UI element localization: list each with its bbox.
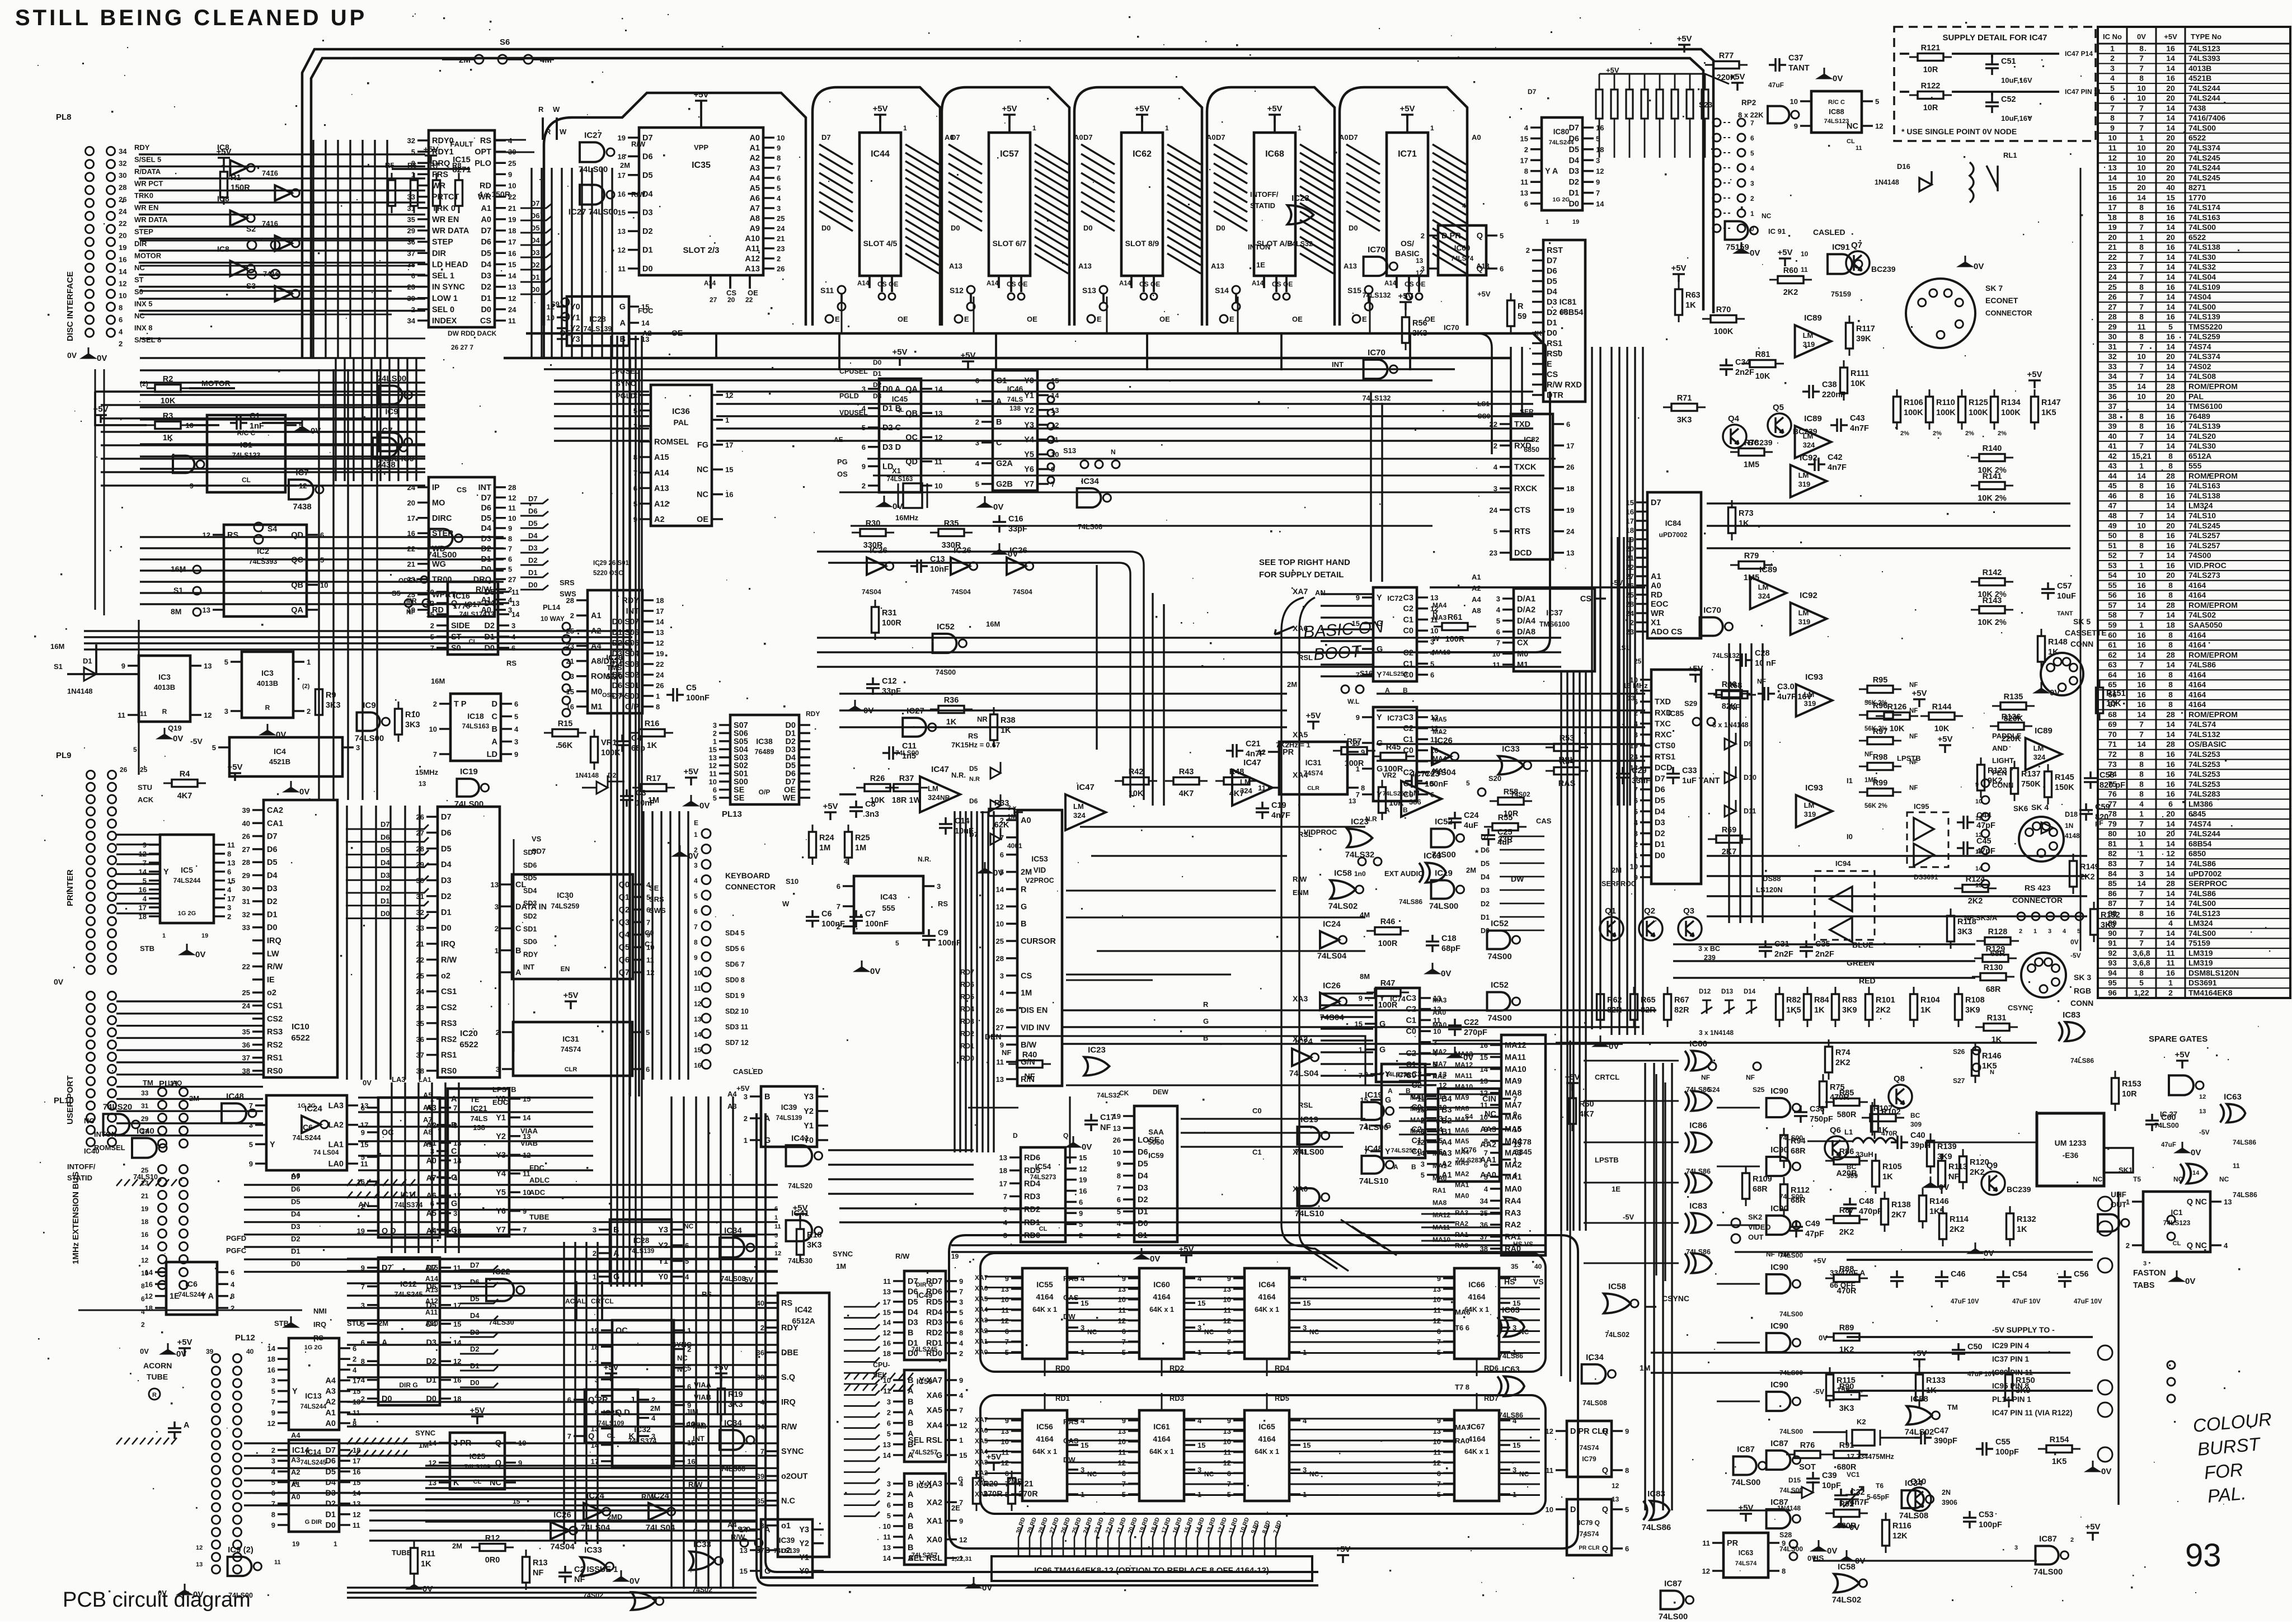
svg-text:12: 12	[267, 1419, 275, 1428]
svg-text:7: 7	[2139, 551, 2144, 560]
resistor R91	[1825, 1451, 1868, 1458]
svg-text:64K x 1: 64K x 1	[1149, 1448, 1174, 1456]
svg-text:R145: R145	[2055, 773, 2074, 782]
svg-text:3K3: 3K3	[1412, 329, 1427, 338]
svg-text:B: B	[492, 725, 497, 734]
svg-text:13: 13	[1433, 1285, 1441, 1293]
svg-text:EOC: EOC	[1651, 600, 1669, 609]
svg-text:8: 8	[2139, 283, 2144, 291]
svg-text:CL: CL	[2173, 1240, 2181, 1247]
svg-text:74LS253: 74LS253	[1391, 1147, 1416, 1154]
svg-text:74LS00: 74LS00	[2033, 1567, 2063, 1577]
resistor R124 2K2	[1954, 885, 1997, 892]
resistor R121	[1909, 54, 1952, 61]
svg-text:3 x BC: 3 x BC	[1698, 945, 1720, 953]
wire	[1420, 998, 1431, 1075]
svg-text:3 x 1N4148: 3 x 1N4148	[1699, 1029, 1734, 1037]
svg-text:39K: 39K	[1856, 335, 1871, 343]
svg-text:IC63: IC63	[1424, 851, 1441, 860]
svg-text:9: 9	[1227, 1416, 1231, 1425]
wire	[1556, 1509, 1567, 1548]
svg-text:LM: LM	[1798, 609, 1809, 617]
XA trunk 2	[1299, 597, 1349, 1271]
svg-text:RDY: RDY	[523, 950, 538, 958]
svg-text:1G 2G: 1G 2G	[1553, 196, 1570, 203]
svg-text:12: 12	[1612, 1482, 1619, 1490]
svg-text:14: 14	[267, 1344, 276, 1353]
svg-text:IC30: IC30	[557, 891, 574, 900]
svg-text:324: 324	[1758, 592, 1770, 600]
svg-text:74LS00: 74LS00	[1429, 902, 1459, 911]
svg-text:22: 22	[656, 660, 664, 669]
svg-text:A14: A14	[654, 469, 669, 478]
wire	[336, 358, 416, 481]
svg-text:13: 13	[204, 662, 212, 670]
svg-text:T7 8: T7 8	[1455, 1383, 1469, 1391]
wire	[981, 380, 993, 484]
IC80 74LS244	[1542, 117, 1582, 210]
svg-text:-5V: -5V	[2070, 952, 2081, 959]
svg-text:RA3: RA3	[1505, 1209, 1521, 1218]
wire	[1443, 1420, 1454, 1494]
svg-text:A9: A9	[749, 224, 760, 233]
svg-text:K: K	[453, 1479, 459, 1488]
NAND IC19 74LS00 c	[1431, 881, 1454, 899]
svg-text:6512A: 6512A	[2188, 451, 2211, 460]
svg-text:MA2: MA2	[1455, 1170, 1469, 1178]
svg-text:D0: D0	[1481, 927, 1490, 935]
capacitor C33 1uF	[1666, 767, 1680, 784]
wire	[557, 307, 567, 339]
NAND IC52 74S00 d	[1487, 992, 1510, 1011]
svg-text:12: 12	[774, 1250, 781, 1257]
svg-text:32: 32	[407, 136, 415, 145]
svg-text:DIR G: DIR G	[399, 1381, 417, 1389]
svg-text:LM: LM	[1409, 789, 1420, 797]
svg-text:25: 25	[996, 937, 1004, 945]
svg-text:DW: DW	[1511, 874, 1524, 883]
resistor R122	[1909, 92, 1952, 99]
wire	[711, 275, 750, 289]
svg-text:1M: 1M	[855, 844, 866, 853]
svg-text:IC29: IC29	[606, 653, 623, 662]
svg-text:G: G	[451, 1226, 457, 1235]
svg-text:R37: R37	[899, 774, 914, 783]
svg-text:20: 20	[2166, 173, 2175, 182]
wire	[1561, 1035, 1665, 1382]
svg-text:6: 6	[694, 908, 698, 916]
svg-text:68B54: 68B54	[2188, 839, 2211, 848]
RAM IC65	[1244, 1410, 1289, 1501]
svg-text:1: 1	[903, 124, 907, 132]
wire	[1063, 1010, 1656, 1044]
capacitor C46 47uF	[1935, 1270, 1948, 1288]
wire	[1599, 74, 1729, 84]
svg-text:E: E	[835, 315, 840, 323]
svg-text:74LS123: 74LS123	[1824, 118, 1849, 125]
svg-text:R147: R147	[2041, 398, 2061, 407]
svg-text:+5V: +5V	[892, 347, 907, 357]
svg-text:A1: A1	[481, 204, 491, 213]
wire	[1289, 1419, 1454, 1495]
wire	[1556, 1431, 1567, 1470]
svg-text:IC41: IC41	[791, 1208, 809, 1218]
svg-text:A6: A6	[423, 1103, 433, 1112]
svg-text:INT: INT	[1332, 360, 1344, 369]
svg-text:74LS04: 74LS04	[1289, 1068, 1319, 1078]
svg-text:1: 1	[1430, 124, 1434, 132]
svg-text:74LS245: 74LS245	[2188, 153, 2220, 162]
svg-text:10K: 10K	[1389, 799, 1404, 808]
svg-text:13: 13	[1430, 594, 1438, 602]
IC18 74LS163	[450, 694, 501, 761]
svg-text:D0: D0	[1216, 224, 1225, 232]
svg-text:+5V: +5V	[960, 351, 975, 360]
capacitor C7 100nF	[849, 910, 863, 928]
svg-text:28: 28	[2108, 312, 2117, 321]
svg-text:D7: D7	[1547, 257, 1557, 266]
svg-text:(4): (4)	[1560, 308, 1568, 315]
svg-text:10K: 10K	[1850, 379, 1866, 388]
svg-text:6: 6	[774, 1206, 778, 1212]
svg-text:R117: R117	[1856, 324, 1875, 333]
svg-text:16: 16	[2166, 412, 2175, 421]
svg-text:74LS86: 74LS86	[2233, 1191, 2257, 1199]
svg-text:43: 43	[2108, 462, 2117, 470]
svg-text:CS: CS	[1272, 280, 1281, 288]
NAND IC40 74LS20 b	[104, 1114, 130, 1135]
svg-text:NC: NC	[697, 491, 708, 500]
svg-text:D18: D18	[2065, 811, 2078, 818]
svg-text:A4: A4	[1441, 1138, 1452, 1147]
svg-text:7416/7406: 7416/7406	[2188, 114, 2225, 123]
svg-text:X1: X1	[892, 467, 901, 475]
svg-text:1: 1	[959, 1436, 963, 1444]
svg-text:74LS08: 74LS08	[1582, 1399, 1607, 1407]
resistor R3 1K	[147, 422, 189, 429]
wire	[574, 1400, 585, 1436]
svg-text:74LS30: 74LS30	[2188, 441, 2216, 450]
svg-text:3: 3	[651, 1432, 655, 1441]
svg-text:3: 3	[271, 1376, 275, 1385]
svg-text:RS: RS	[506, 659, 516, 667]
ROM slot outline IC68	[1207, 87, 1335, 326]
transistor Q3	[1678, 917, 1702, 940]
wire	[342, 746, 354, 749]
svg-text:IC93: IC93	[1805, 672, 1823, 682]
wire	[905, 144, 939, 274]
capacitor C32 4n7F	[1834, 1489, 1848, 1506]
svg-text:VS: VS	[1533, 1277, 1544, 1286]
svg-text:15MHz: 15MHz	[415, 768, 439, 776]
svg-text:28: 28	[2166, 650, 2175, 659]
svg-text:9: 9	[1122, 1416, 1126, 1425]
resistor R83 3K9	[1832, 987, 1839, 1027]
wire	[501, 704, 512, 754]
NAND IC19 a	[1361, 1102, 1384, 1120]
wire	[554, 379, 1432, 381]
svg-text:4: 4	[227, 886, 232, 894]
svg-text:CS: CS	[1405, 280, 1414, 288]
svg-text:36: 36	[2108, 392, 2117, 401]
wire	[1500, 424, 1511, 553]
wire	[392, 1082, 459, 1253]
svg-text:6: 6	[1117, 1195, 1121, 1204]
svg-text:B: B	[908, 1480, 913, 1489]
svg-text:SK 3: SK 3	[2074, 973, 2091, 982]
svg-text:4: 4	[353, 1366, 357, 1374]
svg-text:74LS00: 74LS00	[428, 550, 457, 560]
svg-text:A0: A0	[481, 215, 491, 224]
resistor R60 4K7	[1569, 1091, 1576, 1131]
svg-text:6522: 6522	[2188, 233, 2206, 242]
NOR IC58 d	[1907, 1406, 1932, 1425]
resistor R13 NF	[523, 1550, 530, 1590]
svg-text:D3: D3	[873, 392, 882, 400]
svg-text:D4: D4	[1481, 873, 1490, 881]
capacitor C14 10uF	[939, 817, 952, 835]
svg-text:CASLED: CASLED	[1813, 228, 1845, 237]
svg-text:C38: C38	[1822, 380, 1837, 389]
svg-text:Y3: Y3	[804, 1093, 814, 1102]
svg-text:13: 13	[1566, 549, 1574, 557]
svg-text:74LS244: 74LS244	[2188, 83, 2220, 92]
svg-text:Y A: Y A	[1545, 167, 1558, 176]
svg-text:A: A	[908, 1490, 914, 1499]
resistor R70 100K	[1702, 316, 1745, 323]
svg-text:2: 2	[744, 1114, 748, 1123]
wire	[1347, 752, 1359, 788]
svg-text:R136: R136	[2002, 713, 2021, 722]
svg-text:D3: D3	[481, 534, 491, 543]
wire	[1067, 1420, 1078, 1494]
p	[685, 778, 697, 785]
g	[1449, 1047, 1461, 1057]
resistor R101 2K2	[1866, 987, 1873, 1027]
svg-text:14: 14	[1596, 200, 1604, 208]
svg-text:0V: 0V	[699, 801, 710, 811]
svg-text:C12: C12	[882, 677, 897, 686]
svg-text:IC92: IC92	[1800, 591, 1817, 600]
inverter IC8 7416	[275, 286, 292, 301]
svg-text:8: 8	[2168, 591, 2173, 600]
wire	[1500, 836, 1544, 837]
svg-text:C52: C52	[2001, 95, 2016, 104]
resistor R113 NF	[1938, 1154, 1946, 1194]
wire	[367, 1108, 378, 1231]
NAND IC52 74S00 b	[1431, 829, 1454, 848]
svg-text:6: 6	[1079, 1198, 1083, 1206]
svg-text:D7: D7	[1528, 88, 1537, 96]
p	[471, 1416, 483, 1424]
svg-text:12: 12	[996, 902, 1004, 911]
NAND IC48 74LS10 b	[222, 1103, 246, 1123]
svg-text:D15: D15	[1788, 1476, 1801, 1484]
svg-text:319: 319	[1798, 618, 1811, 626]
svg-text:4: 4	[777, 194, 781, 203]
svg-text:SERPROC: SERPROC	[2188, 879, 2227, 888]
svg-text:Y: Y	[1377, 594, 1382, 602]
svg-text:D6: D6	[1547, 267, 1557, 276]
svg-text:33uH: 33uH	[1856, 1150, 1873, 1159]
svg-text:13: 13	[196, 1561, 203, 1568]
svg-text:1G 2G: 1G 2G	[304, 1344, 322, 1351]
svg-text:A: A	[292, 1478, 298, 1487]
resistor R123 9K2	[1978, 757, 1985, 798]
svg-text:10: 10	[1492, 649, 1500, 658]
svg-text:3: 3	[249, 1121, 253, 1129]
wire	[839, 694, 1287, 727]
svg-text:15: 15	[1520, 134, 1528, 143]
resistor R65 82R	[1631, 987, 1638, 1027]
svg-text:22: 22	[2108, 252, 2117, 261]
svg-text:24: 24	[2108, 272, 2117, 281]
svg-text:NF: NF	[1909, 682, 1918, 689]
svg-text:RD2: RD2	[926, 1329, 942, 1338]
svg-text:34: 34	[119, 147, 127, 156]
wire	[501, 884, 512, 972]
g	[993, 543, 1006, 554]
svg-text:18: 18	[883, 1349, 891, 1358]
svg-text:IC11: IC11	[401, 1190, 417, 1199]
wire	[1006, 820, 1017, 1079]
svg-text:35: 35	[1511, 1263, 1519, 1270]
svg-text:RS: RS	[480, 136, 491, 145]
svg-text:74LS08: 74LS08	[1078, 523, 1102, 531]
resistor R43 4K7	[1165, 778, 1208, 785]
svg-text:4164: 4164	[2188, 700, 2206, 709]
svg-text:74LS32: 74LS32	[1288, 240, 1313, 248]
svg-text:1G 2G: 1G 2G	[178, 910, 196, 917]
resistor R71 3K3	[1663, 404, 1706, 411]
svg-text:A0: A0	[291, 1493, 300, 1501]
wire	[1582, 128, 1594, 204]
svg-text:DSM8LS120N: DSM8LS120N	[2188, 968, 2239, 977]
svg-text:3: 3	[959, 1298, 963, 1306]
svg-text:87: 87	[2108, 899, 2117, 908]
resistor R59	[1507, 293, 1515, 333]
svg-text:20: 20	[2166, 163, 2175, 172]
svg-text:2M: 2M	[650, 1404, 660, 1413]
svg-text:R: R	[538, 105, 544, 114]
svg-text:7: 7	[2139, 511, 2144, 520]
svg-text:14: 14	[656, 618, 664, 626]
svg-text:7: 7	[508, 545, 512, 553]
wire	[307, 535, 318, 610]
svg-text:13: 13	[419, 780, 426, 788]
svg-text:RS: RS	[227, 531, 238, 540]
svg-text:FOR SUPPLY DETAIL: FOR SUPPLY DETAIL	[1259, 570, 1344, 580]
svg-text:D2: D2	[441, 892, 452, 901]
svg-text:C48: C48	[1859, 1197, 1874, 1206]
svg-text:+5V: +5V	[216, 147, 231, 157]
svg-text:17.734475MHz: 17.734475MHz	[1847, 1453, 1894, 1461]
svg-text:OE: OE	[1416, 280, 1425, 288]
svg-text:LM: LM	[2033, 744, 2044, 752]
svg-text:2: 2	[959, 1349, 963, 1358]
svg-text:11: 11	[2167, 958, 2175, 967]
svg-text:G: G	[1385, 1122, 1391, 1131]
capacitor C31 2n2F	[1759, 940, 1772, 958]
svg-text:IC66: IC66	[1468, 1280, 1485, 1289]
svg-text:5: 5	[887, 1430, 891, 1438]
svg-text:C2: C2	[1403, 724, 1413, 733]
wire	[671, 1230, 683, 1277]
svg-text:RD4: RD4	[926, 1308, 942, 1317]
svg-text:D3: D3	[291, 1222, 300, 1231]
svg-text:13: 13	[1513, 1141, 1521, 1149]
capacitor C16 33pF	[993, 515, 1006, 533]
svg-text:R: R	[1432, 609, 1438, 617]
svg-text:FOC: FOC	[638, 307, 654, 315]
svg-text:4: 4	[1496, 606, 1501, 614]
NAND IC9 74LS00 e	[228, 1557, 252, 1576]
svg-text:IC1: IC1	[2171, 1208, 2183, 1217]
svg-text:A12: A12	[425, 1297, 438, 1305]
NAND IC48 74LS10 c	[1361, 1156, 1384, 1174]
opamp IC89 b	[1795, 426, 1831, 458]
svg-text:RAS: RAS	[1063, 1274, 1079, 1283]
svg-text:C49: C49	[1805, 1220, 1820, 1228]
svg-text:R150: R150	[2016, 1376, 2035, 1385]
svg-text:28: 28	[242, 858, 250, 867]
g	[979, 862, 991, 873]
svg-text:15: 15	[959, 1451, 967, 1460]
resistor R137 750K	[2011, 761, 2018, 801]
PL11a	[158, 1088, 167, 1096]
svg-text:R142: R142	[1983, 568, 2002, 577]
svg-text:12: 12	[959, 1421, 967, 1429]
svg-text:DCD: DCD	[1514, 549, 1532, 558]
switch S2	[247, 241, 256, 250]
p	[715, 1373, 727, 1381]
svg-text:IC3: IC3	[261, 669, 274, 677]
svg-text:4164: 4164	[2188, 630, 2206, 639]
p	[1779, 258, 1791, 266]
svg-text:NF: NF	[1701, 1074, 1710, 1081]
svg-text:RS2: RS2	[267, 1041, 283, 1049]
svg-text:3: 3	[2048, 928, 2051, 935]
svg-text:NF: NF	[1729, 703, 1740, 712]
svg-text:7: 7	[2139, 362, 2144, 371]
svg-text:4164: 4164	[2188, 591, 2206, 600]
wire	[1141, 115, 1143, 133]
svg-text:EN: EN	[561, 965, 570, 973]
wire	[347, 1192, 415, 1198]
svg-text:10: 10	[2137, 173, 2146, 182]
svg-text:CS: CS	[1547, 370, 1558, 379]
IC13 74LS244	[289, 1338, 339, 1430]
g	[1594, 1035, 1607, 1046]
svg-text:+5V: +5V	[1813, 1256, 1826, 1265]
svg-text:IC67: IC67	[1468, 1422, 1485, 1431]
svg-text:8: 8	[2139, 789, 2144, 798]
svg-text:12: 12	[141, 1256, 149, 1264]
svg-text:A14: A14	[1384, 280, 1397, 287]
NAND IC90	[1767, 1157, 1791, 1176]
resistor R69 2K7	[1708, 836, 1750, 843]
svg-text:11: 11	[1223, 1306, 1231, 1315]
svg-text:4uF: 4uF	[1464, 821, 1478, 830]
svg-text:14: 14	[2137, 471, 2146, 480]
svg-text:16: 16	[2166, 968, 2175, 977]
svg-text:D2: D2	[481, 283, 491, 292]
svg-text:NC: NC	[677, 1354, 688, 1362]
wire	[642, 600, 654, 707]
svg-text:10: 10	[1790, 97, 1798, 106]
DIN SK4 RS423	[2019, 817, 2064, 862]
svg-text:16: 16	[139, 886, 147, 894]
